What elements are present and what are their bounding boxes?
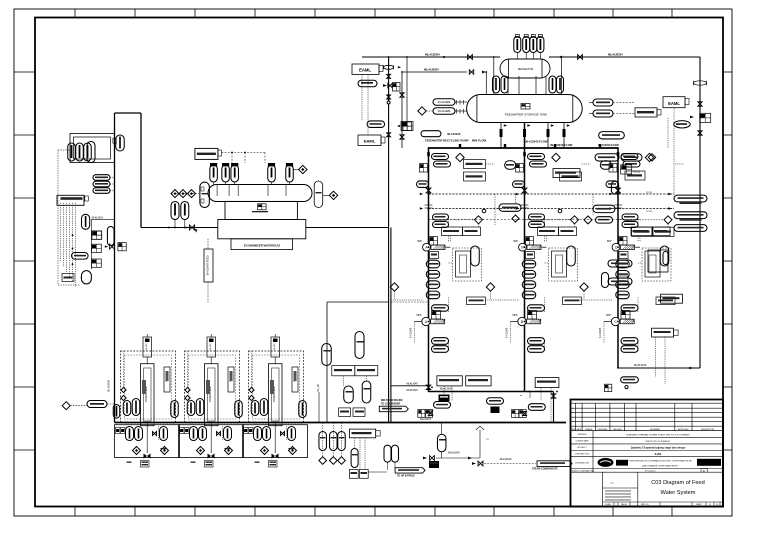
svg-text:PROJECT CONTRACT NO: PROJECT CONTRACT NO	[570, 469, 595, 472]
svg-text:ML#12E84: ML#12E84	[424, 68, 439, 72]
svg-text:C03 Diagram of Feed: C03 Diagram of Feed	[651, 480, 704, 486]
svg-text:#1312: #1312	[634, 171, 641, 174]
svg-text:39-#13043 FLOW: 39-#13043 FLOW	[598, 143, 619, 147]
svg-text:AND UKRAINE CORPORATION EN: AND UKRAINE CORPORATION EN	[642, 465, 678, 468]
svg-text:PROJECT: PROJECT	[577, 447, 587, 449]
svg-text:39-#13: 39-#13	[146, 343, 148, 351]
svg-text:MIN FLOW: MIN FLOW	[472, 139, 486, 143]
svg-text:ML#13043: ML#13043	[420, 419, 432, 421]
svg-text:BFP: BFP	[514, 240, 519, 243]
svg-text:BOILER FEED: BOILER FEED	[146, 386, 148, 402]
svg-text:SHEET: SHEET	[696, 504, 702, 506]
svg-text:TO CONDENSER: TO CONDENSER	[381, 403, 400, 406]
svg-text:C: C	[614, 320, 617, 324]
svg-text:VALUE: VALUE	[621, 503, 627, 506]
svg-text:S-294: S-294	[655, 453, 662, 456]
svg-text:CONTRACT NO: CONTRACT NO	[575, 452, 590, 455]
svg-text:STEAM CONDENSATE: STEAM CONDENSATE	[532, 468, 558, 471]
svg-text:ML#13049: ML#13049	[406, 383, 418, 386]
svg-text:ML#13043: ML#13043	[108, 379, 111, 391]
svg-text:39-#13043 FLOW: 39-#13043 FLOW	[525, 140, 548, 144]
svg-text:APPROVED: APPROVED	[678, 428, 689, 431]
svg-text:Quantity 2 Expanded piping st: Quantity 2 Expanded piping stage dart de…	[631, 447, 686, 450]
svg-text:DATE: DATE	[576, 428, 582, 431]
svg-text:APPL. BY: APPL. BY	[641, 503, 649, 506]
svg-text:ML#13049: ML#13049	[500, 458, 512, 461]
svg-text:39-#13043 FLOW: 39-#13043 FLOW	[550, 143, 573, 147]
svg-text:BOILER FEED: BOILER FEED	[274, 386, 276, 402]
svg-text:EAML: EAML	[364, 139, 376, 144]
svg-text:CONSORTIUM OF DONGFANG ELECTRI: CONSORTIUM OF DONGFANG ELECTRIC CORPORAT…	[628, 460, 692, 463]
svg-text:MFP: MFP	[417, 314, 422, 317]
svg-text:TO HP BYPASS: TO HP BYPASS	[397, 475, 415, 478]
svg-text:FEEDWATER RECYCLING PUMP: FEEDWATER RECYCLING PUMP	[425, 139, 469, 143]
svg-text:TO: TO	[486, 439, 489, 441]
svg-text:39-#13043: 39-#13043	[91, 217, 103, 220]
svg-text:DRAWN: DRAWN	[585, 428, 593, 431]
svg-text:ECONOMIZER WATER/GAS: ECONOMIZER WATER/GAS	[244, 243, 281, 247]
svg-text:S-#13045: S-#13045	[506, 327, 509, 338]
svg-text:OF: OF	[716, 504, 718, 506]
svg-text:FEEDWATER STORAGE TANK: FEEDWATER STORAGE TANK	[505, 113, 548, 117]
svg-text:SCALE: SCALE	[605, 503, 611, 506]
svg-text:VERSION: VERSION	[577, 434, 587, 436]
svg-text:S-#13045: S-#13045	[599, 327, 602, 338]
svg-text:ML#12E84: ML#12E84	[425, 53, 440, 57]
svg-text:39-#12E84: 39-#12E84	[438, 109, 451, 113]
svg-text:S-#13045: S-#13045	[410, 327, 413, 338]
svg-text:ML#13043: ML#13043	[440, 387, 453, 391]
svg-text:A0: A0	[703, 469, 705, 472]
svg-text:BFP: BFP	[418, 240, 423, 243]
svg-text:ML#13049: ML#13049	[634, 363, 647, 367]
svg-text:BOILER FEED: BOILER FEED	[210, 386, 212, 402]
svg-text:CONSULTANT: CONSULTANT	[575, 440, 589, 443]
svg-text:ML#13049: ML#13049	[448, 452, 460, 455]
svg-text:39-#12E84: 39-#12E84	[438, 100, 451, 104]
svg-text:BFP: BFP	[607, 240, 612, 243]
svg-text:size: size	[610, 483, 614, 485]
svg-text:NC_08: NC_08	[317, 384, 320, 392]
svg-text:EAML: EAML	[359, 68, 371, 73]
svg-text:EAML: EAML	[668, 101, 680, 106]
svg-text:39-#13: 39-#13	[210, 343, 212, 351]
svg-text:MFP: MFP	[606, 314, 611, 317]
svg-text:ML#13049: ML#13049	[406, 389, 418, 392]
svg-text:01: 01	[709, 504, 711, 506]
svg-text:HUAIYANG THERMAL POWER PLANT O: HUAIYANG THERMAL POWER PLANT ONE STOCK C…	[626, 433, 690, 436]
svg-text:INSTITUTE OF ENERGY: INSTITUTE OF ENERGY	[646, 441, 671, 443]
svg-text:39-#1312: 39-#1312	[624, 220, 635, 223]
svg-text:#1312: #1312	[646, 211, 653, 213]
svg-text:IP technical: IP technical	[645, 469, 656, 472]
svg-text:ML#12E84: ML#12E84	[608, 53, 623, 57]
svg-text:39-#13043 FEED: 39-#13043 FEED	[206, 255, 210, 275]
svg-text:#1312: #1312	[646, 192, 653, 194]
svg-text:MFP: MFP	[513, 314, 518, 317]
svg-text:39-#13043: 39-#13043	[447, 132, 461, 136]
svg-text:39-#13: 39-#13	[274, 343, 276, 351]
svg-text:SEPARATOR: SEPARATOR	[518, 67, 534, 71]
svg-text:CONTRACTOR: CONTRACTOR	[575, 461, 590, 464]
svg-text:Water System: Water System	[661, 490, 696, 496]
